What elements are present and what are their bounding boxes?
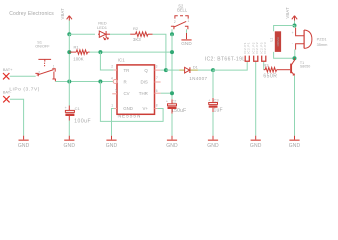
svg-text:LiPo (3.7V): LiPo (3.7V) — [9, 86, 40, 92]
svg-text:V+: V+ — [143, 106, 149, 111]
node S2 trigger junction — [170, 32, 174, 36]
IC1 pin GND stub — [114, 108, 117, 110]
svg-text:Q: Q — [144, 68, 148, 73]
svg-text:S8050: S8050 — [300, 65, 310, 69]
node rail C1 junction — [67, 80, 71, 84]
speaker PZD1 — [296, 28, 312, 50]
svg-text:C1: C1 — [75, 106, 81, 111]
svg-text:BAT+: BAT+ — [3, 67, 13, 72]
inductor L1 — [275, 31, 281, 52]
LED LED1 — [98, 31, 110, 40]
svg-text:35mm: 35mm — [317, 42, 328, 47]
svg-text:4: 4 — [111, 77, 113, 81]
svg-text:3K3: 3K3 — [133, 37, 141, 42]
svg-text:3: 3 — [156, 65, 158, 69]
svg-text:VBAT: VBAT — [285, 7, 290, 19]
svg-text:VBAT: VBAT — [60, 8, 65, 20]
wire GND pin to ground — [112, 109, 114, 136]
svg-text:GND: GND — [166, 143, 178, 149]
svg-text:5: 5 — [115, 89, 117, 93]
wire C3 node to IC2 pad1 — [213, 62, 247, 70]
wire THR to trigger vertical — [161, 92, 172, 94]
svg-text:100MH: 100MH — [276, 37, 280, 47]
ground C1 — [64, 136, 76, 149]
svg-text:2: 2 — [111, 65, 113, 69]
ground C3 — [207, 136, 219, 149]
wire-end X BAT- — [3, 96, 9, 102]
IC1 pin DIS stub — [155, 81, 161, 83]
ground IC1 — [106, 136, 118, 149]
svg-text:R: R — [124, 79, 127, 84]
svg-text:+: + — [208, 99, 210, 103]
IC1 pin CV stub — [112, 93, 117, 95]
wire L1 bottom to collector node — [274, 52, 295, 58]
wire-end X BAT+ — [3, 73, 9, 79]
wire top rail VBAT to LED — [69, 33, 95, 35]
node R1 left junction — [67, 50, 71, 54]
wire S1 output rail — [55, 81, 113, 83]
svg-text:IC2.P1: IC2.P1 — [247, 42, 251, 54]
svg-text:GND: GND — [64, 143, 76, 149]
ground T1 emitter — [289, 136, 301, 149]
node VBAT top-rail junction — [67, 32, 71, 36]
svg-text:1: 1 — [188, 19, 190, 23]
wire Q node down to C3 and ground — [212, 70, 214, 98]
supply VBAT left arrow — [67, 16, 72, 21]
capacitor C2 — [171, 99, 173, 103]
svg-text:2: 2 — [38, 70, 40, 74]
IC1 pin V+ stub — [155, 108, 158, 110]
svg-text:GND: GND — [207, 143, 219, 149]
svg-text:DIS: DIS — [140, 79, 147, 84]
IC1 pin Q stub — [155, 69, 161, 71]
wire VBAT junction to L1 top — [274, 26, 295, 32]
svg-text:Codrey Electronics: Codrey Electronics — [9, 11, 54, 17]
svg-text:7: 7 — [156, 76, 158, 80]
svg-text:GND: GND — [18, 143, 30, 149]
svg-text:+: + — [166, 100, 168, 104]
wire R2 to corner, down to Q node — [153, 34, 166, 70]
svg-text:PZD1: PZD1 — [317, 36, 327, 41]
svg-text:100K: 100K — [73, 56, 83, 61]
svg-text:1: 1 — [111, 103, 113, 107]
node TR junction — [98, 50, 102, 54]
svg-text:ON/OFF: ON/OFF — [35, 44, 50, 48]
wire VBAT column down to rail — [68, 34, 70, 81]
wire Q pin to Q node — [160, 69, 166, 71]
svg-text:IC2: BT66T-19L: IC2: BT66T-19L — [205, 56, 246, 62]
node Q junction — [164, 68, 168, 72]
svg-text:+: + — [292, 31, 294, 35]
node collector junction — [293, 56, 297, 60]
svg-text:IC2.P3: IC2.P3 — [263, 42, 267, 54]
wire BAT- to ground — [10, 99, 24, 136]
wire rail to C1 to ground — [68, 82, 70, 106]
resistor R1 — [69, 50, 89, 54]
capacitor C3 — [212, 98, 214, 103]
node THR junction — [170, 91, 174, 95]
svg-text:IC1: IC1 — [118, 58, 125, 63]
svg-text:1: 1 — [53, 65, 55, 69]
svg-text:R1: R1 — [74, 44, 80, 49]
wire IC2 pad3 to R3 — [263, 62, 265, 70]
wire VBAT right arrow down — [294, 21, 296, 26]
IC1 pin TR stub — [114, 69, 117, 71]
wire VBAT arrow to top rail — [68, 21, 70, 35]
transistor T1 S8050 — [291, 58, 294, 75]
node VBAT right junction — [293, 24, 297, 28]
svg-text:CV: CV — [124, 91, 130, 96]
resistor R2 — [130, 32, 152, 37]
wire IC2 pad2 to ground — [255, 62, 257, 136]
svg-text:2: 2 — [174, 20, 176, 24]
capacitor C1 — [68, 106, 70, 111]
svg-text:650R: 650R — [263, 74, 277, 80]
svg-text:GND: GND — [250, 143, 262, 149]
svg-text:-: - — [292, 42, 293, 46]
wire TR junction down to TR pin — [100, 52, 113, 70]
IC1 NE555 box — [117, 65, 155, 114]
ground S2 pin2 — [181, 29, 192, 46]
svg-text:IC2.P2: IC2.P2 — [255, 42, 259, 54]
svg-text:D1: D1 — [193, 64, 199, 69]
svg-text:GND: GND — [106, 143, 118, 149]
ground BAT- — [18, 136, 30, 149]
ground C2 — [166, 136, 178, 149]
IC1 pin THR stub — [155, 92, 161, 94]
svg-text:+: + — [65, 106, 67, 110]
node C3 junction — [211, 68, 215, 72]
node rail V+ junction — [98, 80, 102, 84]
svg-text:1uF: 1uF — [214, 108, 223, 114]
wire T1 emitter to ground — [294, 76, 296, 136]
IC1 pin R bubble — [113, 80, 117, 84]
svg-text:THR: THR — [139, 91, 148, 96]
supply VBAT right arrow — [292, 16, 297, 21]
svg-text:R2: R2 — [133, 26, 139, 31]
svg-text:8: 8 — [156, 103, 158, 107]
svg-text:LED1: LED1 — [97, 25, 108, 30]
wire S2 pin1 to trigger vertical — [171, 29, 173, 34]
svg-text:C3: C3 — [214, 97, 220, 102]
ground IC2 pad2 — [250, 136, 262, 149]
wire trigger vertical S2 to C2/THR — [171, 34, 173, 99]
resistor R3 — [264, 67, 290, 72]
wire rail junction down and under IC to V+ — [100, 82, 163, 122]
wire BAT+ to S1 — [10, 75, 36, 77]
wire C2 to ground — [171, 114, 173, 136]
svg-text:BAT-: BAT- — [3, 90, 12, 95]
svg-text:L1: L1 — [270, 38, 274, 42]
IC1 pin numbers — [111, 65, 158, 108]
svg-text:6: 6 — [156, 89, 158, 93]
IC1 pin names — [123, 68, 148, 111]
svg-text:BELL: BELL — [177, 7, 188, 12]
diode D1 1N4007 — [179, 67, 198, 73]
wire piezo bottom to collector node — [294, 49, 296, 58]
wire D1 to C3 node — [198, 69, 213, 71]
svg-text:GND: GND — [181, 41, 192, 46]
svg-text:100uF: 100uF — [74, 119, 91, 125]
switch S1 ON/OFF — [35, 59, 55, 81]
wire Q node to D1 — [166, 69, 179, 71]
wire LED to R2 — [110, 33, 130, 35]
svg-text:R3: R3 — [263, 63, 269, 68]
node trigger-vertical R1 junction — [170, 50, 174, 54]
svg-text:GND: GND — [123, 106, 133, 111]
wire R1 to TR junction and trigger vertical — [90, 51, 172, 53]
switch S2 BELL — [171, 16, 188, 30]
svg-text:GND: GND — [289, 143, 301, 149]
wire VBAT junction to piezo top — [294, 26, 296, 28]
svg-text:TR: TR — [124, 68, 130, 73]
svg-text:1N4007: 1N4007 — [189, 76, 207, 81]
